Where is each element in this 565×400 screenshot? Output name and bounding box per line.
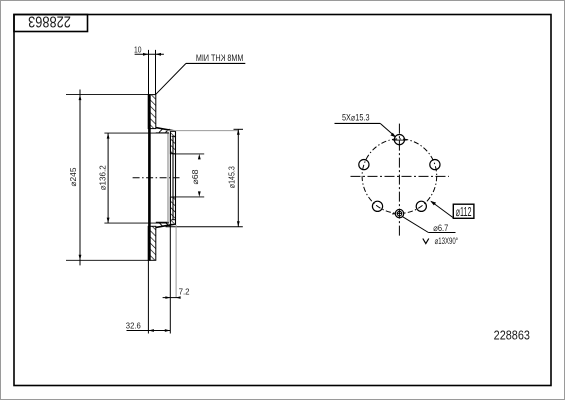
- locating hole leader: [403, 217, 429, 233]
- label 5Xd15.3 underline: [335, 122, 381, 124]
- title box (top-left): [14, 15, 88, 32]
- rotor section bottom (hatched): [148, 226, 156, 260]
- title text 228863 rotated 180: [28, 12, 71, 30]
- rotor section top (hatched): [148, 95, 156, 129]
- bolt hole lower-right: [416, 201, 426, 211]
- label leader to rotor: [156, 63, 186, 94]
- svg-text:5X⌀15.3: 5X⌀15.3: [342, 113, 370, 123]
- countersink symbol: [423, 239, 429, 244]
- dimension d68 ext bottom: [173, 196, 205, 198]
- disc axis centerline: [133, 177, 180, 179]
- locating hole countersink outer: [395, 209, 403, 217]
- hub view horizontal centerline: [351, 175, 449, 177]
- dimension 7.2 arrows: [165, 296, 180, 299]
- rotor outboard face (thick): [148, 94, 151, 261]
- svg-text:⌀136.2: ⌀136.2: [97, 165, 107, 190]
- label 5Xd15.3 arrowhead: [390, 133, 396, 138]
- dimension d136.2 arrows: [107, 133, 110, 223]
- part number bottom right: [494, 328, 531, 343]
- svg-text:MM8 KHT NIM: MM8 KHT NIM: [196, 53, 244, 63]
- svg-text:32.6: 32.6: [126, 320, 141, 330]
- bolt hole upper-left: [359, 160, 369, 170]
- flange inner edge line (gray): [167, 133, 169, 223]
- dimension 10 arrows: [143, 53, 161, 56]
- svg-text:228863: 228863: [494, 328, 531, 343]
- label d112 arrowhead: [430, 201, 436, 206]
- locating hole inner: [397, 211, 402, 216]
- dimension 32.6 line: [127, 330, 171, 332]
- label d6.7 underline: [429, 232, 456, 234]
- pilot step top edge: [172, 135, 176, 137]
- mounting face right: [175, 131, 177, 225]
- dimension d245 ext top: [66, 94, 149, 96]
- locating hole left tick: [392, 213, 395, 215]
- hat shoulder top hatch ticks: [159, 129, 175, 133]
- svg-text:10: 10: [134, 45, 142, 55]
- hat shoulder top outer: [156, 128, 175, 131]
- flange left face: [169, 133, 171, 223]
- svg-text:⌀245: ⌀245: [68, 167, 78, 186]
- hat shoulder bottom hatch ticks: [159, 222, 175, 226]
- svg-text:⌀6.7: ⌀6.7: [433, 223, 448, 233]
- ext line mounting face down (gray): [175, 225, 177, 298]
- bolt hole top cross tick: [393, 139, 407, 141]
- dimension d245 line: [79, 90, 81, 266]
- dimension d136.2 line: [107, 133, 109, 223]
- hat shoulder bottom inner: [156, 221, 169, 223]
- hub flange section bottom (hatched): [170, 197, 175, 224]
- dimension d136.2 ext top: [104, 132, 168, 134]
- dimension d68 ext top: [173, 153, 205, 155]
- svg-text:7.2: 7.2: [179, 287, 190, 297]
- hat shoulder top inner: [156, 132, 169, 134]
- dimension d245 ext bottom: [66, 259, 149, 261]
- svg-text:228863: 228863: [28, 12, 71, 30]
- dimension 7.2 line: [163, 297, 179, 299]
- dimension d245 arrows: [79, 95, 82, 261]
- bolt hole top: [394, 135, 404, 145]
- svg-text:⌀68: ⌀68: [190, 169, 200, 184]
- dimension d145.3 arrows: [237, 129, 240, 227]
- hub flange section top (hatched): [170, 131, 175, 153]
- dimension d68 arrows: [198, 154, 201, 197]
- dimension d145.3 ext bottom: [166, 226, 243, 228]
- dimension d145.3 line: [237, 129, 239, 227]
- bolt circle d112 (dash-dot): [362, 139, 437, 214]
- label MIN THK 8MM (mirrored glyphs): [196, 53, 244, 63]
- label d112 text: [456, 205, 472, 220]
- ext line rotor face down: [147, 260, 149, 333]
- dimension 10 ext lines: [148, 50, 150, 95]
- dimension d145.3 ext top gray: [167, 130, 238, 132]
- pilot step bottom edge: [172, 219, 176, 221]
- bolt hole lower-left: [372, 201, 382, 211]
- label 5Xd15.3 leader: [380, 123, 395, 136]
- label d112 box: [453, 204, 474, 218]
- svg-text:⌀145.3: ⌀145.3: [226, 166, 236, 188]
- dimension 10 line: [135, 53, 164, 55]
- label d112 leader: [431, 202, 453, 218]
- ext line flange face down: [169, 225, 171, 334]
- hat shoulder bottom outer: [156, 224, 175, 227]
- dimension d136.2 ext bottom: [104, 222, 168, 224]
- dimension d145.3 ext top short: [234, 128, 244, 130]
- svg-text:⌀112: ⌀112: [456, 205, 472, 220]
- pilot step edge: [172, 136, 174, 219]
- hub view vertical centerline: [398, 124, 400, 237]
- svg-text:⌀13X90°: ⌀13X90°: [435, 236, 459, 246]
- label underline: [186, 62, 245, 64]
- bolt hole upper-right: [430, 160, 440, 170]
- dimension 32.6 arrows: [148, 329, 170, 332]
